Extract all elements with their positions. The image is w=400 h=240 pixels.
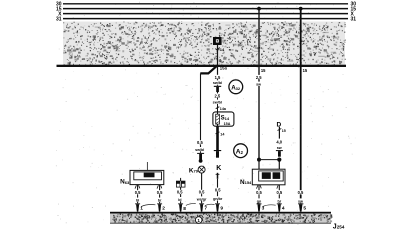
splice crossbar on wire bbox=[214, 86, 221, 87]
svg-text:31: 31 bbox=[56, 17, 62, 23]
double connector symbol bbox=[176, 178, 185, 187]
N154 pin ticks bbox=[257, 185, 279, 188]
control unit N154 bbox=[240, 169, 285, 186]
stub into N154 pin right bbox=[278, 160, 280, 170]
bridge squiggle between terminals 8-7 bbox=[186, 204, 196, 206]
connection circle A32 bbox=[229, 80, 243, 94]
wire label sw/bl bbox=[211, 80, 223, 85]
terminal 5 at plate bbox=[298, 203, 306, 211]
terminal 2 at plate bbox=[157, 203, 165, 211]
wire label br bbox=[156, 198, 163, 203]
terminal 3 at plate bbox=[257, 203, 265, 211]
terminal 4 at plate bbox=[277, 203, 285, 211]
wire label br bbox=[276, 198, 283, 203]
wire label 2,5 bbox=[212, 93, 222, 98]
svg-text:9: 9 bbox=[220, 206, 223, 212]
wire label bl bbox=[135, 198, 141, 203]
terminal tick 15 on D bbox=[278, 129, 286, 133]
wire label bl bbox=[177, 197, 183, 202]
svg-text:0,5: 0,5 bbox=[215, 188, 221, 193]
wire label sw bbox=[297, 198, 305, 203]
terminal 1 at plate bbox=[135, 203, 143, 211]
hatched dash-panel insert band bbox=[63, 22, 346, 67]
N154 wire br pin 4 bbox=[278, 185, 280, 204]
svg-text:0,5: 0,5 bbox=[177, 190, 183, 195]
wire label 0,5 bbox=[213, 188, 222, 193]
wire label 0,5 bbox=[296, 190, 305, 195]
svg-text:bl: bl bbox=[136, 199, 139, 203]
svg-text:N63: N63 bbox=[120, 179, 130, 186]
splice stub bbox=[216, 87, 219, 92]
svg-text:sw/bl: sw/bl bbox=[195, 148, 204, 152]
svg-text:gn/br: gn/br bbox=[213, 197, 223, 201]
svg-text:sw: sw bbox=[256, 83, 261, 87]
svg-text:2,5: 2,5 bbox=[214, 93, 220, 98]
bridge squiggle between terminals 1-2 bbox=[141, 205, 155, 207]
svg-text:0,5: 0,5 bbox=[157, 190, 163, 195]
wire to warning lamp K79 bbox=[200, 73, 202, 152]
bus 31 bbox=[63, 18, 348, 20]
N63 pin ticks bbox=[135, 185, 162, 188]
stub above N63 bbox=[146, 162, 148, 170]
svg-text:31: 31 bbox=[351, 17, 357, 23]
svg-text:4: 4 bbox=[282, 206, 285, 212]
wire bl 0,5 below double connector bbox=[180, 187, 182, 203]
speckle between bus lines bbox=[73, 2, 349, 19]
wire label gn bbox=[256, 198, 263, 203]
wire label 0,5 bbox=[155, 190, 164, 195]
wire label 0,5 bbox=[175, 190, 184, 195]
wire label 0,5 bbox=[275, 190, 284, 195]
wire sw/bl 1.5 segment bbox=[217, 66, 219, 86]
svg-text:7: 7 bbox=[204, 206, 207, 212]
svg-text:15a: 15a bbox=[220, 65, 228, 70]
connection arrow to K bbox=[214, 150, 221, 158]
plus connection square (white glyph in black box) bbox=[213, 37, 222, 45]
svg-text:14a: 14a bbox=[220, 107, 227, 111]
svg-text:sw: sw bbox=[277, 146, 282, 150]
svg-text:gn: gn bbox=[257, 199, 262, 203]
wire label 0,5 bbox=[133, 190, 142, 195]
svg-text:0,5: 0,5 bbox=[298, 190, 304, 195]
glow plug relay N63 bbox=[120, 170, 164, 185]
N63 wire bl pin 1 bbox=[137, 185, 139, 204]
plate index circle 1 bbox=[195, 217, 202, 224]
bridge squiggle between terminals 7-9 bbox=[205, 204, 215, 206]
svg-text:8: 8 bbox=[183, 206, 186, 212]
bus 30 bbox=[63, 3, 348, 5]
wire ws/gr 0.5 below K79 bbox=[201, 173, 203, 203]
terminal 8 at plate bbox=[178, 203, 186, 212]
svg-text:15: 15 bbox=[261, 68, 266, 73]
wire sw/bl 2.5 segment bbox=[217, 92, 219, 112]
svg-text:sw/bl: sw/bl bbox=[213, 101, 222, 105]
bridge squiggle between terminals 3-4 bbox=[263, 205, 276, 207]
stub into N154 pin left bbox=[258, 160, 260, 170]
wire gn/br 0.5 down to plate bbox=[217, 179, 219, 204]
svg-text:ws/gr: ws/gr bbox=[196, 197, 207, 201]
terminal 9 at plate bbox=[215, 203, 223, 211]
hatch streaks bbox=[95, 25, 336, 62]
svg-text:2,5: 2,5 bbox=[256, 75, 262, 80]
hatch darker blobs bbox=[67, 24, 343, 65]
svg-text:bl: bl bbox=[178, 198, 181, 202]
connection arrow above K79 bbox=[197, 153, 204, 163]
svg-text:br: br bbox=[277, 199, 281, 203]
svg-text:0,5: 0,5 bbox=[256, 190, 262, 195]
wire label sw/bl bbox=[193, 147, 205, 152]
wire label 0,5 bbox=[195, 140, 204, 145]
svg-text:0,5: 0,5 bbox=[276, 190, 282, 195]
relay plate bar J254 bbox=[110, 212, 332, 224]
svg-text:1,5: 1,5 bbox=[215, 75, 221, 80]
N154 wire gn pin 3 bbox=[258, 185, 260, 204]
wire label 0,5 bbox=[197, 190, 206, 195]
svg-text:sw/bl: sw/bl bbox=[213, 81, 222, 85]
svg-text:A2: A2 bbox=[236, 149, 244, 156]
svg-text:S14: S14 bbox=[221, 116, 230, 122]
wire label ws/gr bbox=[195, 196, 207, 201]
svg-text:1: 1 bbox=[197, 218, 200, 223]
bus X bbox=[63, 13, 348, 15]
junction dot on bus 15 right bbox=[299, 7, 303, 11]
svg-text:sw: sw bbox=[298, 199, 303, 203]
connector K lower stub bbox=[216, 173, 220, 179]
svg-text:15A: 15A bbox=[224, 122, 231, 126]
wire label sw bbox=[255, 82, 263, 87]
paper noise speckle bbox=[56, 21, 356, 225]
terminal tick 15 bbox=[257, 65, 266, 73]
connector tick 14a at fuse entry bbox=[216, 107, 227, 111]
terminal 7 at plate bbox=[199, 203, 207, 211]
svg-text:K79: K79 bbox=[189, 167, 199, 174]
terminal tick 15 bbox=[298, 65, 307, 73]
wire label gn/br bbox=[212, 196, 224, 201]
svg-text:0,5: 0,5 bbox=[135, 190, 141, 195]
junction dot at N154 feed bbox=[257, 158, 261, 162]
wire label sw/bl bbox=[211, 100, 223, 105]
bus 15 bbox=[63, 8, 348, 10]
svg-text:15: 15 bbox=[303, 68, 308, 73]
svg-text:2: 2 bbox=[162, 206, 165, 212]
junction wire to D feed bbox=[259, 159, 279, 161]
svg-text:A32: A32 bbox=[231, 85, 241, 92]
connection arrow from D bbox=[276, 150, 283, 162]
svg-text:N154: N154 bbox=[240, 179, 252, 186]
svg-text:4,0: 4,0 bbox=[276, 140, 282, 145]
wire from D terminal 15 bbox=[278, 127, 280, 139]
long wire 0,5 sw to terminal 5 bbox=[300, 9, 302, 204]
bottom border of hatched band bbox=[57, 65, 347, 67]
wire label 0,5 bbox=[254, 190, 263, 195]
wire from square down through band bbox=[217, 45, 219, 66]
svg-text:K: K bbox=[216, 165, 221, 172]
wire label 1,5 bbox=[212, 75, 222, 80]
svg-text:14: 14 bbox=[220, 47, 225, 52]
junction dot on bus 15 bbox=[257, 7, 261, 11]
connector tick 14 below square bbox=[215, 47, 225, 52]
wire label 2,5 bbox=[254, 75, 264, 80]
svg-text:0,5: 0,5 bbox=[199, 190, 205, 195]
connection circle A2 bbox=[234, 144, 248, 158]
svg-text:J254: J254 bbox=[333, 223, 345, 230]
wire 2,5 sw from bus 15 bbox=[258, 9, 260, 160]
svg-text:5: 5 bbox=[303, 206, 306, 212]
diagonal branch wire to K79 column bbox=[200, 65, 217, 73]
warning lamp K79 bbox=[189, 166, 205, 174]
N63 wire br pin 2 bbox=[159, 185, 161, 204]
connector tick 14 at fuse exit bbox=[216, 132, 226, 137]
bold wire from fuse exit bbox=[216, 126, 219, 150]
svg-text:15: 15 bbox=[282, 129, 286, 133]
fuse S14 15A bbox=[213, 112, 234, 126]
